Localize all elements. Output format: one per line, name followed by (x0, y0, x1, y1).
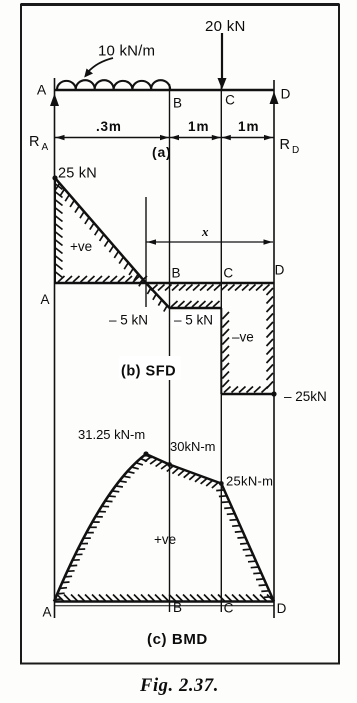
svg-text:R: R (280, 137, 290, 153)
svg-text:30kN-m: 30kN-m (170, 439, 216, 454)
svg-text:+ve: +ve (70, 239, 92, 254)
svg-text:x: x (201, 224, 209, 239)
svg-text:D: D (281, 87, 291, 102)
svg-text:.3m: .3m (96, 119, 122, 134)
svg-text:A: A (42, 142, 49, 153)
svg-text:(a): (a) (152, 144, 172, 160)
svg-text:– 5 kN: – 5 kN (109, 313, 148, 328)
svg-text:25 kN: 25 kN (58, 166, 97, 182)
svg-text:R: R (29, 134, 39, 150)
svg-text:+ve: +ve (154, 532, 176, 547)
svg-text:– 25kN: – 25kN (284, 389, 327, 404)
svg-text:B: B (173, 600, 182, 615)
svg-text:20 kN: 20 kN (205, 18, 246, 35)
svg-text:1m: 1m (238, 119, 260, 134)
svg-text:1m: 1m (188, 119, 210, 134)
svg-text:Fig. 2.37.: Fig. 2.37. (139, 676, 219, 696)
svg-text:31.25 kN-m: 31.25 kN-m (78, 427, 145, 442)
svg-text:B: B (171, 266, 180, 281)
svg-text:– 5 kN: – 5 kN (174, 313, 213, 328)
svg-text:C: C (223, 266, 233, 281)
svg-text:D: D (277, 601, 287, 616)
svg-text:C: C (225, 93, 235, 108)
svg-text:A: A (42, 605, 51, 620)
svg-text:C: C (224, 601, 234, 616)
svg-text:(c) BMD: (c) BMD (147, 631, 208, 648)
svg-text:–ve: –ve (232, 330, 254, 345)
svg-text:10 kN/m: 10 kN/m (98, 43, 155, 60)
svg-text:(b) SFD: (b) SFD (121, 364, 176, 380)
svg-text:A: A (37, 82, 47, 98)
svg-text:A: A (40, 292, 49, 307)
svg-text:25kN-m: 25kN-m (226, 474, 273, 489)
svg-text:D: D (275, 263, 285, 278)
svg-text:D: D (292, 145, 299, 156)
svg-text:B: B (173, 96, 182, 111)
